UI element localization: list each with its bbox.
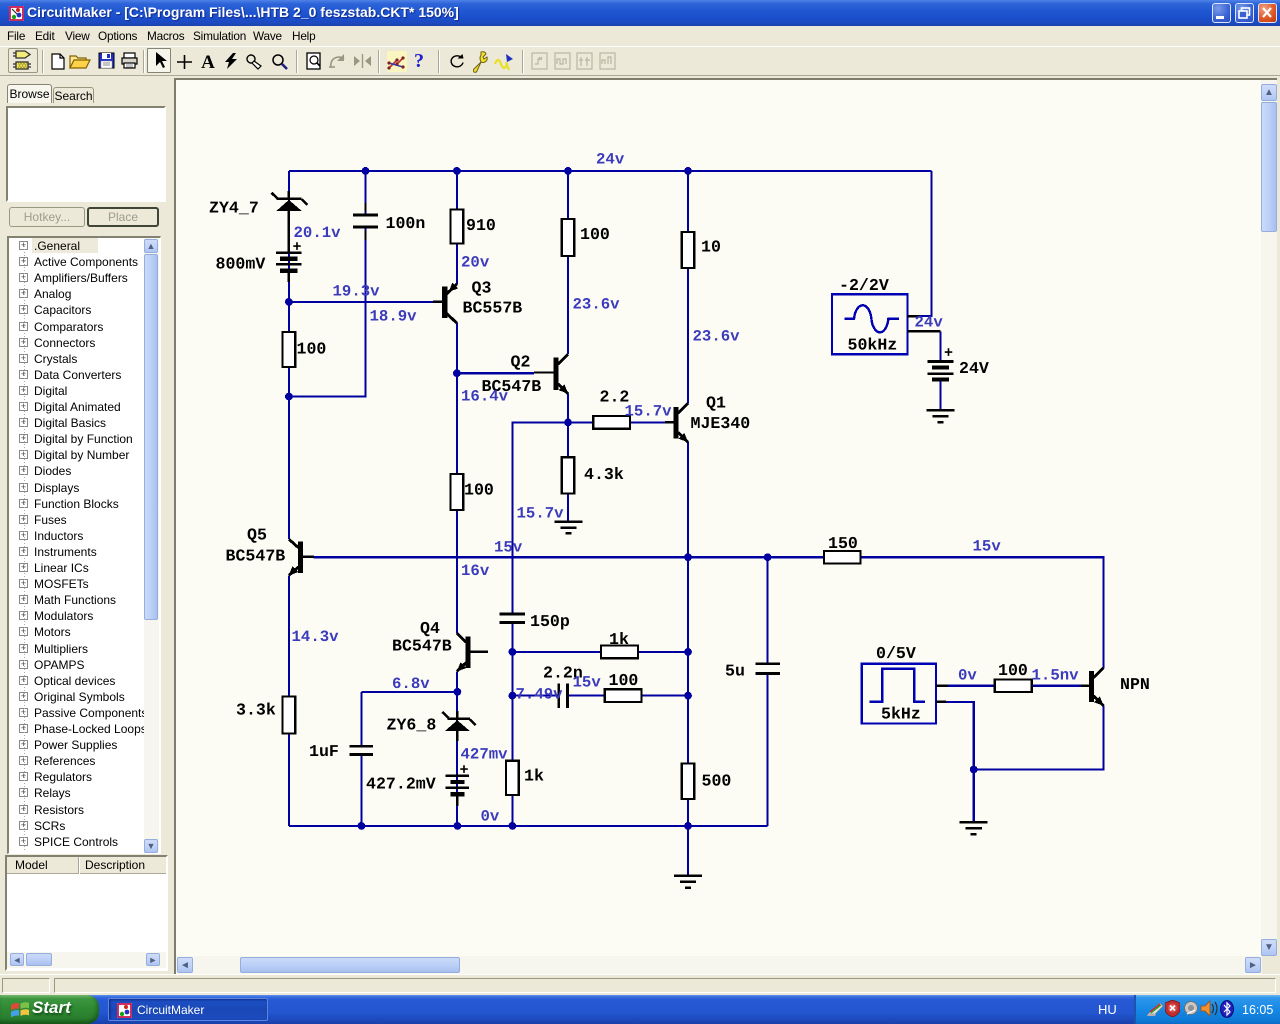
wire sine source to 24V battery xyxy=(939,331,941,360)
junction Q3 base tee xyxy=(285,298,293,306)
label ZY6_8 xyxy=(387,716,437,735)
wire NPN base from pulse xyxy=(947,685,995,687)
svg-text:800mV: 800mV xyxy=(216,255,266,274)
label 100n xyxy=(386,214,426,233)
label ZY4_7 xyxy=(209,199,259,218)
label + battery 800mV xyxy=(293,239,302,256)
capacitor 2.2n xyxy=(559,683,568,707)
label MJE340 xyxy=(691,414,751,433)
label 910 xyxy=(466,216,496,235)
label node 15v at 2.2n xyxy=(573,674,602,692)
svg-text:7.49v: 7.49v xyxy=(516,686,564,704)
junction top rail at 910 xyxy=(453,167,461,175)
svg-text:15v: 15v xyxy=(573,674,602,692)
label node 20v xyxy=(461,253,490,271)
label 10 xyxy=(701,238,721,257)
resistor 100 (compensation) xyxy=(605,689,642,702)
label 100 mid xyxy=(464,481,494,500)
wire Q3 base xyxy=(289,301,433,303)
transistor Q3 BC557B (PNP) xyxy=(433,282,458,323)
svg-text:16v: 16v xyxy=(461,562,490,580)
label 100 center xyxy=(580,225,610,244)
label 4.3k xyxy=(584,465,624,484)
wire 100n cap branch xyxy=(289,171,366,397)
svg-text:BC547B: BC547B xyxy=(392,637,452,656)
junction Q3 collector / Q2 base xyxy=(453,369,461,377)
label 100 npn xyxy=(998,661,1028,680)
svg-text:1uF: 1uF xyxy=(309,742,339,761)
resistor 500 xyxy=(682,763,695,799)
wire 15v main rail left xyxy=(314,556,825,558)
toolbar xyxy=(0,46,1280,76)
label 150 xyxy=(828,534,858,553)
resistor 100 (NPN base) xyxy=(995,679,1032,692)
svg-text:+: + xyxy=(944,345,953,362)
svg-text:3.3k: 3.3k xyxy=(236,701,276,720)
label BC557B Q3 xyxy=(463,299,523,318)
svg-text:24V: 24V xyxy=(959,359,989,378)
junction 100n return xyxy=(285,393,293,401)
svg-text:16.4v: 16.4v xyxy=(461,388,509,406)
svg-text:19.3v: 19.3v xyxy=(333,283,381,301)
wire 2.2 resistor to junction xyxy=(568,421,593,423)
svg-text:BC547B: BC547B xyxy=(226,547,286,566)
label BC547B Q4 xyxy=(392,637,452,656)
label node 20.1v xyxy=(294,224,342,242)
label node 6.8v xyxy=(392,675,430,693)
svg-text:+: + xyxy=(460,762,469,779)
wire Q3 collector to Q4 collector column xyxy=(456,323,458,633)
junction 2.2n line left xyxy=(509,692,517,700)
junction main rail at Q1 emitter xyxy=(684,553,692,561)
label BC547B Q5 xyxy=(226,547,286,566)
resistor 1k (Q4 base) xyxy=(506,761,519,795)
zener diode ZY4_7 xyxy=(272,191,308,252)
svg-text:100: 100 xyxy=(464,481,494,500)
svg-text:24v: 24v xyxy=(915,314,944,332)
svg-text:0v: 0v xyxy=(958,667,977,685)
schematic area xyxy=(174,78,1280,974)
wire 15v main rail right xyxy=(861,557,1104,668)
svg-text:ZY4_7: ZY4_7 xyxy=(209,199,259,218)
svg-text:10: 10 xyxy=(701,238,721,257)
svg-text:0/5V: 0/5V xyxy=(876,644,916,663)
label node 23.6v right xyxy=(693,328,741,346)
label node 16.4v xyxy=(461,388,509,406)
label node 19.3v xyxy=(333,283,381,301)
junction bottom rail at 1uF xyxy=(358,822,366,830)
junction bottom rail at 500 xyxy=(684,822,692,830)
model/description xyxy=(5,855,168,971)
label Q2 xyxy=(511,353,531,372)
svg-text:24v: 24v xyxy=(596,151,625,169)
label 1uF xyxy=(309,742,339,761)
svg-text:20v: 20v xyxy=(461,253,490,271)
svg-text:50kHz: 50kHz xyxy=(848,336,898,355)
wire 1uF branch xyxy=(360,692,362,826)
ground (24V battery) xyxy=(927,410,955,422)
label + battery 24V xyxy=(944,345,953,362)
right scrollbar xyxy=(1261,80,1277,956)
label -2/2V xyxy=(839,276,889,295)
resistor 10 xyxy=(682,232,695,268)
svg-text:4.3k: 4.3k xyxy=(584,465,624,484)
svg-text:100: 100 xyxy=(609,671,639,690)
label node 24v at source xyxy=(915,314,944,332)
status bar xyxy=(0,974,1280,995)
svg-text:20.1v: 20.1v xyxy=(294,224,342,242)
resistor 150 xyxy=(824,551,861,564)
taskbar xyxy=(0,995,1280,1024)
label Q1 xyxy=(706,394,726,413)
left panel xyxy=(0,76,176,996)
svg-text:18.9v: 18.9v xyxy=(370,308,418,326)
svg-text:Q5: Q5 xyxy=(247,526,267,545)
svg-text:1k: 1k xyxy=(524,767,544,786)
svg-text:1.5nv: 1.5nv xyxy=(1032,667,1080,685)
svg-text:MJE340: MJE340 xyxy=(691,414,751,433)
battery V4 24V xyxy=(928,362,954,380)
ground (4.3k) xyxy=(555,522,583,534)
label 1k vertical xyxy=(524,767,544,786)
wire 100 line right xyxy=(641,695,688,697)
transistor Q4 BC547B (NPN, mirrored) xyxy=(457,633,488,671)
label 100 comp xyxy=(609,671,639,690)
wire 1k feedback line right xyxy=(638,651,688,653)
svg-text:100: 100 xyxy=(998,661,1028,680)
svg-text:Q3: Q3 xyxy=(472,279,492,298)
label node 18.9v xyxy=(370,308,418,326)
wire 910/Q3 emitter column xyxy=(456,171,458,284)
svg-text:150: 150 xyxy=(828,534,858,553)
zener diode ZY6_8 xyxy=(442,711,476,741)
wire Q1 base from 2.2 resistor xyxy=(630,421,665,423)
wire Q2 emitter down xyxy=(567,394,569,458)
svg-text:15.7v: 15.7v xyxy=(625,403,673,421)
bottom scrollbar xyxy=(176,956,1262,974)
label node 15v right xyxy=(973,538,1002,556)
junction bottom rail at battery xyxy=(454,822,462,830)
junction 6.8v node xyxy=(454,688,462,696)
wire 24v feed to sine source xyxy=(918,171,932,316)
svg-text:BC557B: BC557B xyxy=(463,299,523,318)
wire 1k feedback line xyxy=(512,651,601,653)
junction top rail at 100n xyxy=(362,167,370,175)
label 0/5V xyxy=(876,644,916,663)
resistor 100 (Q2 collector) xyxy=(562,219,575,256)
svg-text:15v: 15v xyxy=(494,539,523,557)
label node 15.7v at Q1 xyxy=(625,403,673,421)
svg-text:500: 500 xyxy=(702,772,732,791)
menu bar xyxy=(0,26,1280,46)
resistor 100 (left bias) xyxy=(283,332,296,367)
label 2.2n xyxy=(543,664,583,683)
svg-text:14.3v: 14.3v xyxy=(292,628,340,646)
wire pulse source to ground drop xyxy=(945,702,974,822)
svg-text:100: 100 xyxy=(297,340,327,359)
wire Q2 base xyxy=(457,372,534,374)
wire 24v top rail xyxy=(289,170,932,172)
wire 10/Q1 column xyxy=(687,171,689,404)
label 5u xyxy=(725,662,745,681)
junction pulse ground node xyxy=(970,766,978,774)
junction 100 line right xyxy=(684,692,692,700)
capacitor 150p xyxy=(500,614,525,622)
svg-text:100n: 100n xyxy=(386,214,426,233)
wire 6.8v line xyxy=(361,691,457,693)
svg-text:427mv: 427mv xyxy=(461,746,509,764)
capacitor 100n xyxy=(353,203,378,240)
junction 1k line right xyxy=(684,648,692,656)
label 50kHz xyxy=(848,336,898,355)
label NPN xyxy=(1120,675,1150,694)
svg-text:Q4: Q4 xyxy=(420,619,440,638)
svg-text:427.2mV: 427.2mV xyxy=(366,775,436,794)
wire 24V battery to ground xyxy=(939,380,941,410)
svg-text:6.8v: 6.8v xyxy=(392,675,430,693)
label 3.3k xyxy=(236,701,276,720)
label node 23.6v left xyxy=(573,296,621,314)
label 100 left xyxy=(297,340,327,359)
wire left column lower (Q5 emitter to bottom rail) xyxy=(288,575,290,826)
junction Q4 base node xyxy=(509,648,517,656)
battery V3 800mV xyxy=(276,253,302,282)
transistor Q1 MJE340 (NPN) xyxy=(665,403,688,442)
svg-text:5u: 5u xyxy=(725,662,745,681)
label node 15.7v at ground xyxy=(517,505,565,523)
svg-text:5kHz: 5kHz xyxy=(881,705,921,724)
wire NPN base from 100 resistor xyxy=(1032,685,1081,687)
wire Q4 emitter to bottom rail column xyxy=(456,671,458,826)
transistor Q2 BC547B (NPN) xyxy=(534,354,568,394)
svg-text:NPN: NPN xyxy=(1120,675,1150,694)
label node 14.3v xyxy=(292,628,340,646)
label 2.2 xyxy=(600,388,630,407)
wire bottom 0v rail xyxy=(289,825,768,827)
wire 5u cap branch xyxy=(767,557,769,826)
sine source V1 -2/2V 50kHz xyxy=(832,294,941,354)
pulse source V5 0/5V 5kHz xyxy=(862,664,948,724)
title bar xyxy=(0,0,1280,26)
wire 2.2n line left xyxy=(512,695,558,697)
svg-text:150p: 150p xyxy=(530,612,570,631)
wire Q2 emitter to 150p branch xyxy=(512,422,568,826)
label 150p xyxy=(530,612,570,631)
capacitor 1uF xyxy=(350,746,373,754)
wire 2.2n to 100 link xyxy=(568,695,605,697)
svg-text:A: A xyxy=(201,54,215,69)
resistor 4.3k xyxy=(562,457,575,493)
resistor 910 xyxy=(451,210,464,244)
label node 15v left xyxy=(494,539,523,557)
wire NPN emitter return xyxy=(974,706,1104,770)
svg-text:0v: 0v xyxy=(481,808,500,826)
label node 0v bottom xyxy=(481,808,500,826)
label Q4 xyxy=(420,619,440,638)
junction bottom rail at 1k xyxy=(509,822,517,830)
svg-text:Q2: Q2 xyxy=(511,353,531,372)
svg-text:910: 910 xyxy=(466,216,496,235)
resistor 2.2 xyxy=(593,416,630,429)
resistor 100 (Q4 collector) xyxy=(451,474,464,510)
label + battery 427.2mV xyxy=(460,762,469,779)
transistor NPN (right) xyxy=(1081,668,1104,706)
wire left column upper (zener/battery branch) xyxy=(288,171,290,539)
label 800mV xyxy=(216,255,266,274)
label node 1.5nv xyxy=(1032,667,1080,685)
wire Q1 emitter down to 500/ground column xyxy=(687,442,689,875)
label 500 xyxy=(702,772,732,791)
label 427.2mV xyxy=(366,775,436,794)
label Q5 xyxy=(247,526,267,545)
capacitor 5u xyxy=(755,664,779,674)
ground (output) xyxy=(674,876,702,888)
svg-text:23.6v: 23.6v xyxy=(573,296,621,314)
label Q3 xyxy=(472,279,492,298)
svg-text:ZY6_8: ZY6_8 xyxy=(387,716,437,735)
label node 24v top xyxy=(596,151,625,169)
resistor 1k (feedback) xyxy=(601,646,638,659)
label 5kHz xyxy=(881,705,921,724)
battery V2 427.2mV xyxy=(446,776,469,806)
label node 16v xyxy=(461,562,490,580)
svg-text:23.6v: 23.6v xyxy=(693,328,741,346)
svg-text:1k: 1k xyxy=(609,630,629,649)
svg-text:Q1: Q1 xyxy=(706,394,726,413)
resistor 3.3k xyxy=(283,697,296,734)
ground (pulse source) xyxy=(960,822,988,834)
junction Q2 emitter node xyxy=(564,419,572,427)
junction top rail at 100 xyxy=(564,167,572,175)
svg-text:15.7v: 15.7v xyxy=(517,505,565,523)
svg-text:15v: 15v xyxy=(973,538,1002,556)
junction top rail at 10 xyxy=(684,167,692,175)
label node 7.49v xyxy=(516,686,564,704)
wire 100/Q2 column xyxy=(567,171,569,354)
label 24V xyxy=(959,359,989,378)
transistor Q5 BC547B (NPN, mirrored) xyxy=(289,539,314,575)
wire 4.3k to ground xyxy=(567,494,569,522)
label BC547B Q2 xyxy=(482,377,542,396)
svg-text:-2/2V: -2/2V xyxy=(839,276,889,295)
label node 0v at pulse xyxy=(958,667,977,685)
svg-text:100: 100 xyxy=(580,225,610,244)
label node 427mv xyxy=(461,746,509,764)
label 1k horizontal xyxy=(609,630,629,649)
junction main rail at 5u xyxy=(764,553,772,561)
